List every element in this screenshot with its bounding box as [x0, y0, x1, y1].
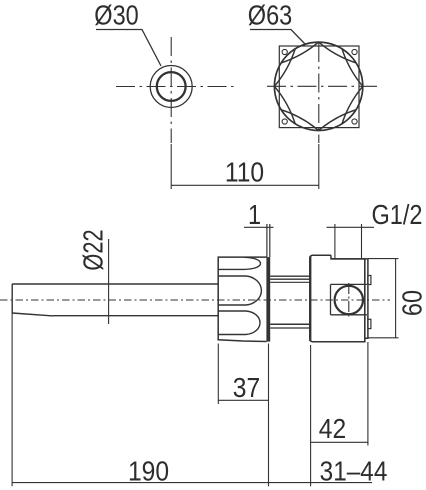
- knob grip arc 7: [274, 49, 295, 87]
- valve cartridge square left: [330, 284, 332, 314]
- handle grip finger 3: [218, 311, 260, 335]
- valve cartridge square top: [331, 283, 367, 285]
- svg-text:Ø30: Ø30: [94, 1, 138, 31]
- plate hole top-right: [352, 49, 357, 54]
- dimension text 60: [398, 290, 426, 316]
- sleeve top inner line: [270, 281, 310, 283]
- dimension line 110: [171, 184, 319, 186]
- dimension line Ø22: [108, 239, 110, 324]
- handle rear face bar: [266, 257, 270, 342]
- svg-text:60: 60: [398, 290, 426, 316]
- handle knob side outline: [218, 257, 266, 341]
- bottom dimension line 190 / 31-44: [12, 482, 372, 484]
- knob horizontal centerline: [267, 85, 377, 87]
- label Ø63: [248, 1, 292, 31]
- 1 extension line left: [266, 224, 268, 257]
- lower mounting tab: [368, 319, 371, 328]
- 42 extension line right: [367, 342, 369, 446]
- spout bottom edge: [53, 315, 218, 317]
- knob grip arc 6: [274, 86, 295, 124]
- valve cartridge square bottom: [331, 314, 367, 316]
- ring vertical centerline: [170, 37, 172, 143]
- leader line Ø63: [250, 30, 306, 45]
- 42 extension line left / wall plane: [310, 345, 312, 486]
- mounting hole ring inner: [157, 72, 186, 101]
- dimension line G1/2: [327, 226, 375, 228]
- ring extension line down: [170, 144, 172, 189]
- plate hole bottom-left: [282, 119, 287, 124]
- inlet port circle: [335, 286, 363, 314]
- svg-text:37: 37: [233, 372, 260, 404]
- knob grip arc 2: [342, 49, 363, 87]
- valve body top edge right part: [331, 258, 368, 260]
- dimension text 31-44: [320, 455, 388, 487]
- knob grip arc 1: [319, 42, 357, 63]
- svg-text:110: 110: [225, 156, 264, 188]
- dimension text 42: [319, 413, 346, 445]
- dimension text 190: [128, 455, 169, 487]
- sleeve bottom lower line: [270, 327, 310, 329]
- sleeve top outer line: [270, 275, 310, 277]
- G1/2 extension line right: [361, 224, 363, 259]
- 60 extension line bottom: [368, 337, 399, 339]
- leader line Ø30: [96, 30, 161, 67]
- sleeve bottom outer line: [270, 323, 310, 325]
- 37 extension line right / 190 right: [268, 344, 270, 487]
- ring horizontal centerline: [116, 86, 235, 88]
- 60 extension line top: [368, 258, 399, 260]
- plate hole top-left: [282, 49, 287, 54]
- svg-text:190: 190: [128, 455, 169, 487]
- svg-text:31–44: 31–44: [320, 455, 388, 487]
- handle grip finger 1: [218, 257, 260, 269]
- svg-text:1: 1: [248, 200, 261, 230]
- knob outer circle: [274, 42, 362, 130]
- valve body right cap: [365, 259, 368, 338]
- knob grip arc 3: [342, 86, 363, 124]
- knob vertical centerline: [318, 43, 320, 143]
- spout top edge: [12, 283, 218, 285]
- mounting hole ring outer: [150, 66, 192, 108]
- inlet vertical centerline: [348, 283, 350, 317]
- spout tip vertical: [11, 284, 13, 313]
- dimension line 37: [218, 399, 268, 401]
- 1 extension line right: [269, 224, 271, 257]
- svg-text:Ø22: Ø22: [78, 229, 109, 270]
- dimension text 1: [248, 200, 261, 230]
- escutcheon square plate: [279, 46, 359, 128]
- dimension line 42: [311, 441, 369, 443]
- valve body left edge thick: [309, 257, 311, 342]
- spout tip taper: [12, 313, 53, 316]
- svg-text:G1/2: G1/2: [372, 200, 423, 230]
- dimension text G1/2: [372, 200, 423, 230]
- dimension line 1: [244, 226, 274, 228]
- G1/2 extension line left: [334, 224, 336, 259]
- valve body inner vertical: [364, 259, 366, 342]
- handle grip finger 2: [218, 276, 261, 305]
- main horizontal axis centerline: [0, 299, 390, 301]
- svg-text:Ø63: Ø63: [248, 1, 292, 31]
- 190 extension line left: [11, 313, 13, 486]
- knob extension line down: [318, 144, 320, 189]
- 37 extension line left: [217, 344, 219, 405]
- plate hole bottom-right: [352, 119, 357, 124]
- knob grip arc 8: [281, 42, 319, 63]
- knob grip arc 5: [281, 110, 319, 131]
- dimension text 110: [225, 156, 264, 188]
- dimension text Ø22: [78, 229, 109, 270]
- upper mounting tab: [368, 276, 371, 285]
- dimension text 37: [233, 372, 260, 404]
- sleeve top middle line: [270, 278, 310, 280]
- svg-text:42: 42: [319, 413, 346, 445]
- dimension line 60: [395, 259, 397, 338]
- knob grip arc 4: [319, 110, 357, 131]
- valve body outline: [310, 255, 365, 341]
- label Ø30: [94, 1, 138, 31]
